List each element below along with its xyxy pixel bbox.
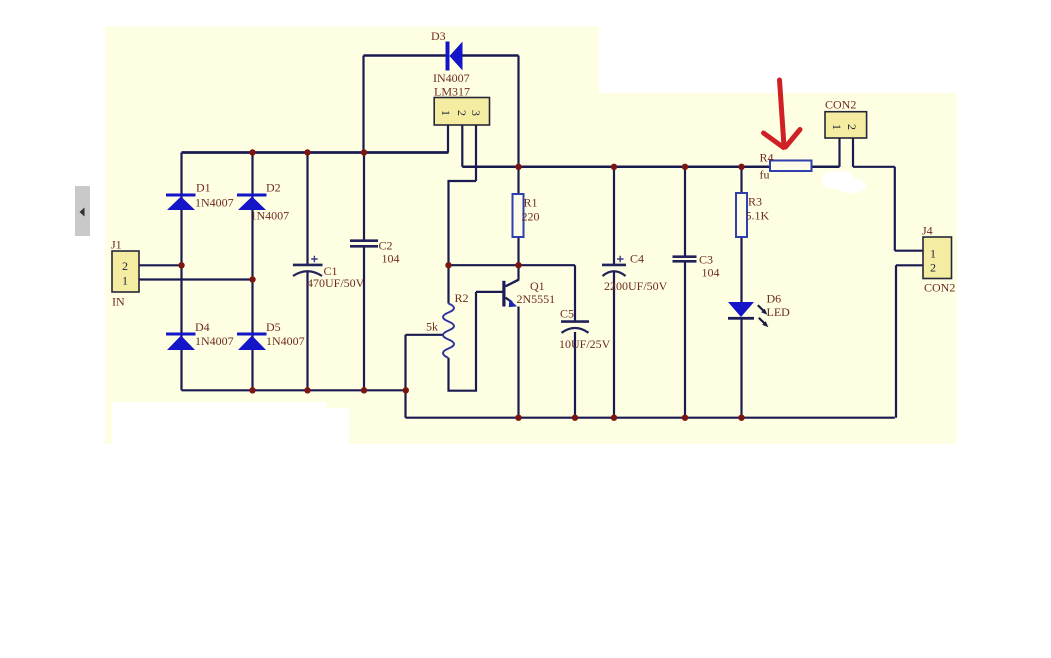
white eraser blob under CON2 [821, 171, 866, 193]
capacitor C3 [673, 257, 697, 262]
svg-text:1N4007: 1N4007 [195, 196, 234, 210]
svg-text:D3: D3 [431, 29, 446, 43]
svg-text:1N4007: 1N4007 [266, 334, 305, 348]
svg-text:LED: LED [767, 305, 791, 319]
svg-text:2N5551: 2N5551 [517, 292, 556, 306]
capacitor C5 [561, 322, 589, 333]
svg-text:Q1: Q1 [530, 279, 545, 293]
svg-text:CON2: CON2 [825, 98, 856, 112]
resistor R1 [513, 194, 524, 237]
svg-text:R2: R2 [455, 291, 469, 305]
svg-text:LM317: LM317 [434, 85, 470, 99]
connector CON2 top [825, 112, 867, 138]
LED D6 [728, 302, 768, 327]
schematic sheet background upper-left [105, 27, 599, 94]
potentiometer R2 [443, 304, 454, 359]
wire CON2 pin2 lead [852, 138, 854, 167]
svg-text:C2: C2 [379, 239, 393, 253]
svg-text:CON2: CON2 [924, 281, 955, 295]
wire vertical D3 right leg down to net [517, 56, 519, 167]
wire C4 top lead [613, 167, 615, 264]
svg-text:R4: R4 [760, 151, 774, 165]
capacitor C4 [602, 256, 626, 276]
wire LM317 pin3 jog [449, 181, 477, 304]
resistor R3 [736, 193, 747, 237]
wire R1 bottom lead [517, 237, 519, 265]
wire LM317 pin3 lead [475, 125, 477, 181]
svg-text:2: 2 [845, 124, 859, 130]
svg-text:J1: J1 [111, 238, 122, 252]
junction mini bus C2 [361, 387, 367, 393]
svg-text:104: 104 [382, 252, 400, 266]
svg-text:1: 1 [439, 110, 453, 116]
svg-text:220: 220 [522, 210, 540, 224]
wire output net LM317 pin2 to R4 [462, 166, 770, 169]
junction out net R1 [515, 164, 521, 170]
wire ground lower bus [406, 417, 895, 419]
junction adj net R2 [445, 262, 451, 268]
svg-text:D5: D5 [266, 320, 281, 334]
junction bus C1 [304, 149, 310, 155]
svg-text:5.1K: 5.1K [746, 209, 770, 223]
white cutout bottom-left [112, 402, 326, 444]
wire LM317 pin2 lead [461, 125, 463, 167]
wire D1 D4 column [180, 153, 182, 391]
annotation red arrow [764, 80, 801, 148]
capacitor C1 [293, 256, 323, 276]
wire J1 pin2 [139, 264, 182, 266]
svg-text:1: 1 [830, 124, 844, 130]
diode D3 [446, 42, 463, 71]
wire R3 top lead [740, 167, 742, 193]
wire R2 bottom jog [449, 292, 477, 391]
svg-text:2: 2 [122, 259, 128, 273]
wire C4 bottom lead [613, 271, 615, 418]
regulator U LM317 [434, 98, 489, 126]
wire C3 bottom lead [684, 262, 686, 418]
wire Q1 emitter lead [517, 307, 519, 418]
svg-text:C4: C4 [630, 252, 644, 266]
scrollbar button left edge [75, 186, 90, 236]
wire C1 column lower [306, 271, 308, 390]
junction bus D2 [249, 149, 255, 155]
svg-text:C5: C5 [560, 307, 574, 321]
diode D1 [166, 194, 196, 211]
wire Q1 collector lead [517, 265, 519, 280]
svg-text:R3: R3 [748, 195, 762, 209]
svg-text:J4: J4 [922, 224, 933, 238]
junction J1 pin2 [178, 262, 184, 268]
transistor Q1 [502, 280, 519, 308]
svg-text:104: 104 [702, 266, 720, 280]
junction out net R3 [738, 164, 744, 170]
svg-text:D2: D2 [266, 181, 281, 195]
wire J4 pin2 [896, 264, 923, 266]
junction lower bus Q1 [515, 415, 521, 421]
wire J1 pin1 [139, 278, 253, 280]
junction lower bus C3 [682, 415, 688, 421]
wire J4 pin1 [895, 250, 923, 252]
svg-text:2: 2 [455, 110, 469, 116]
junction J1 pin1 [249, 276, 255, 282]
svg-text:1N4007: 1N4007 [251, 209, 290, 223]
capacitor C2 [350, 241, 378, 247]
diode D5 [237, 333, 267, 351]
connector J4 [923, 237, 952, 279]
svg-text:5k: 5k [426, 320, 438, 334]
wire main bus [182, 151, 449, 154]
wire C5 top lead [574, 265, 576, 320]
svg-text:D6: D6 [767, 292, 782, 306]
diode D2 [237, 194, 267, 211]
svg-text:3: 3 [469, 110, 483, 116]
wire top left to D3 [364, 54, 446, 57]
junction mini bus drop [403, 387, 409, 393]
junction bus C2 D3 [361, 149, 367, 155]
wire R2 wiper [406, 334, 445, 336]
svg-text:2200UF/50V: 2200UF/50V [604, 279, 668, 293]
wire LM317 pin1 lead [447, 125, 449, 153]
junction out net C4 [611, 164, 617, 170]
junction dots [178, 149, 744, 421]
junction mini bus C1 [304, 387, 310, 393]
wire ground mini bus [182, 389, 406, 391]
wire CON2 pin2 to right column [853, 166, 895, 168]
svg-text:R1: R1 [524, 196, 538, 210]
junction lower bus D6 [738, 415, 744, 421]
wire C3 top lead [684, 167, 686, 256]
resistor R4 [770, 161, 812, 172]
junction lower bus C4 [611, 415, 617, 421]
wire C1 column upper [306, 153, 308, 265]
svg-text:1: 1 [930, 247, 936, 261]
wire vertical D3 left leg [362, 56, 364, 153]
schematic sheet background main [105, 93, 957, 444]
wire right column upper [894, 167, 896, 251]
wire Q1 base lead [476, 291, 503, 293]
svg-text:470UF/50V: 470UF/50V [307, 276, 365, 290]
diode D4 [166, 333, 196, 351]
junction adj net Q1 [515, 262, 521, 268]
svg-text:C3: C3 [699, 253, 713, 267]
wire D3 to right corner [462, 54, 518, 57]
junction out net C3 [682, 164, 688, 170]
svg-text:2: 2 [930, 261, 936, 275]
wire C2 column upper [363, 153, 365, 240]
svg-text:1: 1 [122, 274, 128, 288]
wire R2 wiper drop [404, 335, 406, 418]
wire D2 D5 column [251, 153, 253, 391]
wire C2 column lower [363, 247, 365, 390]
wire D6 bottom lead [740, 319, 742, 418]
junction lower bus C5 [572, 415, 578, 421]
svg-text:1N4007: 1N4007 [195, 334, 234, 348]
wire adj net horizontal [449, 264, 576, 266]
svg-text:fu: fu [760, 168, 770, 182]
scrollbar arrow glyph [80, 208, 85, 217]
wire CON2 pin1 lead [838, 138, 840, 167]
svg-text:10UF/25V: 10UF/25V [559, 337, 611, 351]
wire R4 right to CON2 pin1 [812, 166, 840, 169]
connector J1 [112, 251, 139, 292]
junction mini bus D5 [249, 387, 255, 393]
svg-text:IN: IN [112, 295, 125, 309]
svg-text:D4: D4 [195, 320, 210, 334]
wire C5 bottom lead [574, 332, 576, 418]
wire R3 to D6 [740, 237, 742, 302]
svg-text:IN4007: IN4007 [433, 71, 470, 85]
wire right column lower [895, 265, 897, 417]
wire R1 top lead [517, 167, 519, 194]
svg-text:D1: D1 [196, 181, 211, 195]
